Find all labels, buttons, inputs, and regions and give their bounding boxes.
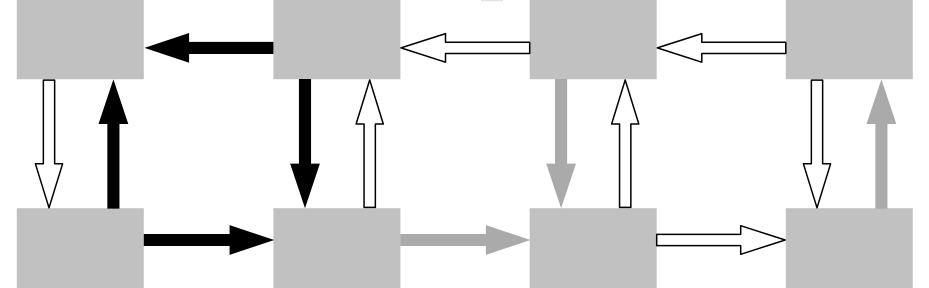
white left arrow from top box 4 to top box 3 (657, 34, 786, 63)
gray up arrow, column 4 (867, 79, 897, 208)
white left arrow from top box 3 to top box 2 (401, 34, 530, 63)
white down arrow, column 1 (35, 80, 62, 208)
faint cropped gray mark at top center (481, 0, 503, 1)
black left arrow from top box 2 to top box 1 (145, 33, 274, 63)
top box 3 (530, 0, 657, 79)
black up arrow, column 1 (99, 79, 129, 208)
gray down arrow, column 3 (546, 79, 576, 208)
white up arrow, column 3 (612, 80, 639, 207)
bottom box 4 (786, 208, 913, 288)
white right arrow from bottom box 3 to bottom box 4 (657, 226, 786, 255)
black down arrow, column 2 (290, 79, 320, 208)
white up arrow, column 2 (356, 80, 383, 207)
top box 4 (786, 0, 913, 79)
top box 1 (17, 0, 144, 79)
gray right arrow from bottom box 2 to bottom box 3 (400, 225, 530, 255)
top box 2 (273, 0, 400, 79)
bottom box 3 (530, 208, 657, 288)
bottom box 1 (17, 208, 144, 288)
white down arrow, column 4 (803, 80, 830, 208)
bottom box 2 (273, 208, 400, 288)
black right arrow from bottom box 1 to bottom box 2 (144, 225, 274, 255)
